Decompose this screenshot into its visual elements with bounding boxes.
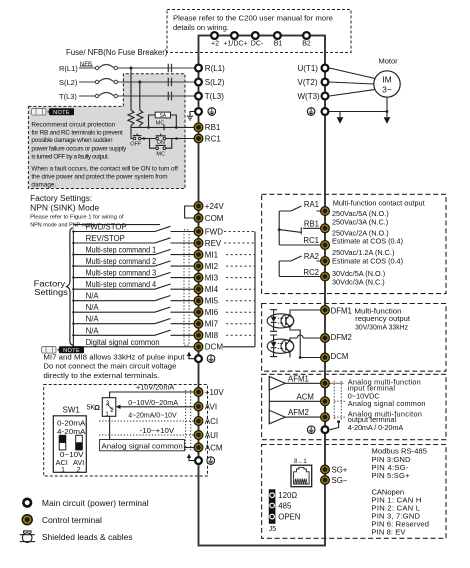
- svg-text:Main circuit (power) terminal: Main circuit (power) terminal: [42, 498, 149, 508]
- svg-text:RB1: RB1: [205, 123, 221, 132]
- svg-text:Fuse/ NFB(No Fuse Breaker): Fuse/ NFB(No Fuse Breaker): [66, 48, 168, 57]
- svg-text:4-20mA / 0-20mA: 4-20mA / 0-20mA: [348, 423, 404, 432]
- svg-text:Multi-step command 4: Multi-step command 4: [86, 280, 157, 289]
- svg-text:AUI: AUI: [205, 431, 218, 440]
- svg-text:details on wiring.: details on wiring.: [173, 23, 229, 32]
- svg-text:ACM: ACM: [297, 392, 314, 401]
- svg-text:REV/STOP: REV/STOP: [86, 234, 125, 243]
- svg-text:possible damage when sudden: possible damage when sudden: [31, 137, 113, 144]
- svg-text:Please refer to Figure 1 for w: Please refer to Figure 1 for wiring of: [30, 215, 124, 221]
- svg-text:DCM: DCM: [205, 343, 224, 352]
- svg-text:SG−: SG−: [332, 476, 348, 485]
- svg-text:B2: B2: [302, 41, 311, 48]
- svg-text:ON: ON: [157, 140, 165, 146]
- svg-text:+2: +2: [211, 41, 219, 48]
- svg-text:Shielded leads & cables: Shielded leads & cables: [42, 532, 133, 542]
- svg-text:Factory: Factory: [34, 280, 66, 289]
- svg-text:FWD: FWD: [205, 227, 223, 236]
- svg-text:MI8: MI8: [205, 331, 219, 340]
- svg-text:directly to the external termi: directly to the external terminals.: [43, 371, 159, 380]
- svg-text:SG+: SG+: [332, 465, 348, 474]
- svg-text:the drive power and protect th: the drive power and protect the power sy…: [31, 173, 167, 180]
- svg-text:N/A: N/A: [86, 326, 100, 335]
- svg-text:DC-: DC-: [251, 41, 264, 48]
- svg-text:Analog signal common: Analog signal common: [348, 399, 426, 408]
- svg-text:PIN 8: EV: PIN 8: EV: [372, 528, 407, 537]
- svg-text:power failure occurs or power: power failure occurs or power supply: [31, 146, 127, 153]
- svg-text:AVI: AVI: [205, 402, 217, 411]
- svg-text:NPN (SINK) Mode: NPN (SINK) Mode: [30, 203, 100, 212]
- svg-text:B1: B1: [274, 41, 283, 48]
- svg-text:MI2: MI2: [205, 262, 219, 271]
- svg-text:DFM1: DFM1: [331, 306, 352, 315]
- svg-text:+10V: +10V: [205, 388, 225, 397]
- svg-text:Analog signal common: Analog signal common: [101, 441, 182, 450]
- svg-text:DCM: DCM: [331, 352, 349, 361]
- svg-text:MI3: MI3: [205, 273, 219, 282]
- svg-text:PIN 5:SG+: PIN 5:SG+: [372, 471, 411, 480]
- svg-text:RC2: RC2: [303, 268, 319, 277]
- svg-text:T(L3): T(L3): [205, 92, 224, 101]
- svg-text:RB1: RB1: [304, 219, 319, 228]
- svg-text:AFM2: AFM2: [288, 408, 309, 417]
- svg-text:damage.: damage.: [31, 181, 56, 188]
- svg-text:MI4: MI4: [205, 285, 219, 294]
- svg-text:ACI: ACI: [205, 417, 218, 426]
- svg-text:COM: COM: [205, 214, 224, 223]
- svg-text:250Vac/3A (N.C.): 250Vac/3A (N.C.): [332, 217, 388, 226]
- svg-text:Multi-step command 1: Multi-step command 1: [86, 246, 157, 255]
- svg-text:30V/30mA 33kHz: 30V/30mA 33kHz: [355, 322, 408, 331]
- svg-text:V(T2): V(T2): [298, 78, 318, 87]
- svg-text:ACM: ACM: [205, 443, 223, 452]
- svg-text:4-20mA: 4-20mA: [57, 427, 86, 436]
- svg-text:2: 2: [77, 465, 81, 474]
- svg-text:MI6: MI6: [205, 308, 219, 317]
- svg-text:+10V/20mA: +10V/20mA: [136, 383, 174, 392]
- svg-text:R(L1): R(L1): [59, 64, 78, 73]
- svg-text:NFB: NFB: [80, 62, 92, 68]
- svg-text:120Ω: 120Ω: [278, 491, 297, 500]
- svg-text:Multi-step command 3: Multi-step command 3: [86, 269, 157, 278]
- svg-text:+24V: +24V: [205, 202, 225, 211]
- svg-text:for RB and RC terminals to pre: for RB and RC terminals to prevent: [31, 129, 123, 136]
- svg-text:Please refer to the C200 user: Please refer to the C200 user manual for…: [173, 13, 333, 22]
- svg-text:4~20mA/0~10V: 4~20mA/0~10V: [128, 411, 177, 420]
- svg-text:S(L2): S(L2): [59, 78, 78, 87]
- svg-text:MC: MC: [156, 151, 165, 157]
- svg-text:8←1: 8←1: [294, 459, 307, 465]
- svg-text:Control terminal: Control terminal: [42, 515, 102, 525]
- svg-text:MI1: MI1: [205, 250, 219, 259]
- svg-text:OFF: OFF: [130, 141, 142, 147]
- svg-text:Multi-step command 2: Multi-step command 2: [86, 257, 157, 266]
- svg-text:1: 1: [105, 411, 109, 418]
- svg-text:Factory Settings:: Factory Settings:: [30, 194, 92, 203]
- svg-text:SW1: SW1: [63, 406, 81, 415]
- svg-text:Do not connect the main circui: Do not connect the main circuit voltage: [43, 362, 176, 371]
- svg-text:30Vdc/3A (N.C.): 30Vdc/3A (N.C.): [332, 277, 385, 286]
- svg-text:1: 1: [61, 465, 65, 474]
- svg-text:REV: REV: [205, 239, 222, 248]
- svg-text:MI7 and MI8 allows 33kHz of pu: MI7 and MI8 allows 33kHz of pulse input: [43, 353, 185, 362]
- svg-text:Ω: Ω: [94, 405, 100, 412]
- svg-text:is turned OFF by a faulty outp: is turned OFF by a faulty output.: [31, 153, 109, 160]
- svg-text:IM: IM: [382, 75, 391, 85]
- svg-text:Estimate at COS (0.4): Estimate at COS (0.4): [332, 237, 403, 246]
- svg-text:N/A: N/A: [86, 315, 100, 324]
- svg-text:SA: SA: [159, 113, 166, 119]
- svg-text:RC1: RC1: [303, 236, 319, 245]
- svg-text:RA1: RA1: [304, 200, 319, 209]
- svg-text:RC1: RC1: [205, 134, 222, 143]
- svg-text:DFM2: DFM2: [331, 333, 352, 342]
- svg-text:RA2: RA2: [304, 252, 319, 261]
- svg-text:3~: 3~: [382, 85, 392, 95]
- svg-text:Recommend circuit protection: Recommend circuit protection: [31, 121, 115, 128]
- svg-text:Estimate at COS (0.4): Estimate at COS (0.4): [332, 256, 403, 265]
- svg-text:485: 485: [278, 502, 292, 511]
- svg-text:When a fault occurs, the conta: When a fault occurs, the contact will be…: [31, 166, 178, 173]
- svg-text:FWD/STOP: FWD/STOP: [86, 223, 127, 232]
- svg-text:Multi-function contact output: Multi-function contact output: [333, 199, 426, 208]
- svg-text:N/A: N/A: [86, 292, 100, 301]
- svg-text:-10~+10V: -10~+10V: [140, 426, 175, 435]
- svg-text:R(L1): R(L1): [205, 64, 225, 73]
- svg-text:MI7: MI7: [205, 320, 219, 329]
- svg-text:Settings: Settings: [34, 288, 68, 297]
- svg-text:+1/DC+: +1/DC+: [223, 41, 247, 48]
- svg-text:T(L3): T(L3): [59, 92, 77, 101]
- svg-text:W(T3): W(T3): [298, 92, 321, 101]
- svg-text:Motor: Motor: [379, 57, 399, 66]
- svg-text:N/A: N/A: [86, 303, 100, 312]
- svg-text:MC: MC: [156, 120, 165, 126]
- svg-text:U(T1): U(T1): [298, 64, 319, 73]
- svg-text:MI5: MI5: [205, 297, 219, 306]
- svg-text:AFM1: AFM1: [288, 374, 309, 383]
- svg-text:Digital signal common: Digital signal common: [86, 338, 160, 347]
- svg-text:S(L2): S(L2): [205, 78, 225, 87]
- svg-text:0~10V/0~20mA: 0~10V/0~20mA: [128, 398, 178, 407]
- svg-text:OPEN: OPEN: [278, 513, 300, 522]
- svg-text:J5: J5: [269, 526, 277, 533]
